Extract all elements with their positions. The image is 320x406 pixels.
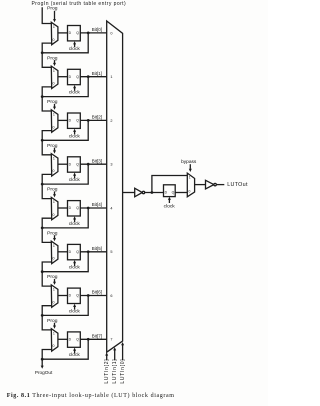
svg-text:Prog: Prog — [47, 318, 58, 324]
wire hold input mux M0 0 — [42, 43, 52, 53]
flip-flop FF6 — [68, 288, 81, 303]
wire FF8 Q to mux U3 input 0 — [175, 192, 187, 194]
wire chain cell 0 to mux M1 input 1 — [42, 53, 51, 68]
flip-flop FF5 — [68, 244, 81, 259]
svg-text:Q: Q — [76, 294, 79, 298]
wire U3 output to inverter U4 — [195, 184, 206, 186]
wire U2 output to FF8 D — [145, 192, 164, 194]
select arrow LUTIn[1] into mux U1 — [113, 347, 116, 360]
svg-text:0: 0 — [53, 344, 55, 348]
svg-text:Prog: Prog — [47, 230, 58, 236]
svg-text:clock: clock — [69, 308, 81, 314]
mux U1 8-to-1 — [107, 21, 123, 352]
svg-text:ProgIn (serial truth table ent: ProgIn (serial truth table entry port) — [32, 1, 127, 7]
wire hold input mux M3 0 — [42, 174, 52, 184]
mux U3 bypass 2-to-1 — [187, 173, 194, 197]
svg-text:Bit[6]: Bit[6] — [92, 290, 102, 295]
wire hold input mux M7 0 — [42, 350, 52, 360]
svg-text:Prog: Prog — [47, 274, 58, 280]
select arrow Prog cell 0 — [53, 11, 56, 22]
node Bit[4] junction — [87, 207, 90, 210]
svg-text:Q: Q — [76, 206, 79, 210]
svg-text:0: 0 — [53, 169, 55, 173]
node Bit[1] junction — [87, 75, 90, 78]
svg-text:4: 4 — [110, 206, 112, 210]
svg-text:0: 0 — [110, 31, 112, 35]
node Bit[7] junction — [87, 338, 90, 341]
mux M4 2-to-1 — [51, 197, 58, 219]
svg-text:clock: clock — [69, 133, 81, 139]
wire feedback FF1 Q — [42, 77, 88, 97]
wire chain cell 1 to mux M2 input 1 — [42, 97, 51, 111]
svg-text:ProgOut: ProgOut — [35, 370, 53, 375]
node chain junction cell 2 — [41, 139, 44, 142]
wire Bit[7] FF7 Q to mux U1 input 7 — [80, 338, 106, 340]
flip-flop FF4 — [68, 201, 81, 216]
wire feedback FF5 Q — [42, 252, 88, 272]
wire hold input mux M6 0 — [42, 306, 52, 316]
node U2 output junction — [151, 191, 154, 194]
svg-text:Bit[7]: Bit[7] — [92, 333, 102, 338]
select arrow Prog cell 2 — [53, 104, 56, 110]
node chain junction cell 6 — [41, 314, 44, 317]
svg-text:1: 1 — [53, 200, 55, 204]
svg-text:3: 3 — [110, 163, 112, 167]
svg-text:0: 0 — [53, 257, 55, 261]
clock input FF1 — [69, 85, 81, 96]
flip-flop FF1 — [68, 69, 81, 84]
svg-text:clock: clock — [69, 221, 81, 227]
wire Bit[3] FF3 Q to mux U1 input 3 — [80, 163, 106, 165]
svg-text:clock: clock — [69, 90, 81, 96]
node Bit[0] junction — [87, 32, 90, 35]
svg-text:1: 1 — [53, 156, 55, 160]
node chain junction cell 5 — [41, 270, 44, 273]
mux M7 2-to-1 — [51, 329, 58, 351]
wire chain cell 6 to mux M7 input 1 — [42, 315, 51, 330]
mux M0 2-to-1 — [51, 22, 58, 44]
wire LUTOut — [216, 184, 224, 186]
node Bit[2] junction — [87, 119, 90, 122]
clock input FF5 — [69, 260, 81, 271]
wire mux M2 to FF2 D — [58, 119, 68, 121]
svg-text:Q: Q — [76, 31, 79, 35]
svg-text:0: 0 — [53, 213, 55, 217]
svg-text:Prog: Prog — [47, 99, 58, 105]
wire feedback FF2 Q — [42, 120, 88, 140]
wire chain cell 4 to mux M5 input 1 — [42, 228, 51, 243]
svg-text:Q: Q — [172, 191, 175, 195]
svg-text:0: 0 — [53, 300, 55, 304]
svg-text:LUTOut: LUTOut — [227, 182, 248, 188]
svg-text:0: 0 — [189, 189, 191, 193]
select arrow Prog cell 3 — [53, 148, 56, 154]
select arrow Prog cell 6 — [53, 279, 56, 285]
svg-text:Bit[0]: Bit[0] — [92, 27, 102, 32]
wire feedback FF7 Q — [42, 339, 88, 359]
select arrow Prog cell 5 — [53, 235, 56, 241]
svg-text:clock: clock — [69, 177, 81, 183]
svg-text:LUTIn[0]: LUTIn[0] — [120, 359, 126, 384]
svg-text:1: 1 — [53, 288, 55, 292]
select arrow LUTIn[0] into mux U1 — [121, 342, 124, 360]
svg-text:Bit[3]: Bit[3] — [92, 158, 102, 163]
wire feedback FF3 Q — [42, 164, 88, 184]
wire chain cell 3 to mux M4 input 1 — [42, 184, 51, 199]
clock input FF7 — [69, 348, 81, 359]
svg-text:Bit[5]: Bit[5] — [92, 246, 102, 251]
node chain junction cell 0 — [41, 51, 44, 54]
mux M6 2-to-1 — [51, 285, 58, 307]
select arrow Prog cell 4 — [53, 191, 56, 197]
flip-flop FF3 — [68, 157, 81, 172]
wire ProgOut — [41, 359, 44, 369]
select arrow LUTIn[2] into mux U1 — [105, 352, 108, 360]
svg-text:Bit[4]: Bit[4] — [92, 202, 102, 207]
svg-text:Bit[1]: Bit[1] — [92, 71, 102, 76]
svg-text:0: 0 — [53, 38, 55, 42]
wire feedback FF4 Q — [42, 208, 88, 228]
clock input FF3 — [69, 173, 81, 184]
wire U1 output — [123, 192, 135, 194]
wire Bit[2] FF2 Q to mux U1 input 2 — [80, 119, 106, 121]
wire mux M6 to FF6 D — [58, 295, 68, 297]
wire mux M3 to FF3 D — [58, 163, 68, 165]
svg-text:LUTIn[2]: LUTIn[2] — [104, 359, 110, 384]
svg-text:2: 2 — [110, 119, 112, 123]
wire mux M0 to FF0 D — [58, 32, 68, 34]
svg-text:1: 1 — [53, 332, 55, 336]
wire bypass path to mux U3 input 1 — [152, 176, 187, 193]
svg-text:Prog: Prog — [47, 143, 58, 149]
wire hold input mux M4 0 — [42, 218, 52, 228]
svg-text:Q: Q — [76, 119, 79, 123]
inverter U2 — [135, 188, 145, 197]
wire ProgIn to mux M0 input 1 — [42, 7, 51, 23]
svg-text:0: 0 — [53, 125, 55, 129]
wire mux M7 to FF7 D — [58, 338, 68, 340]
node Bit[6] junction — [87, 294, 90, 297]
wire Bit[1] FF1 Q to mux U1 input 1 — [80, 76, 106, 78]
svg-text:Q: Q — [76, 75, 79, 79]
svg-text:Prog: Prog — [47, 6, 58, 12]
wire Bit[5] FF5 Q to mux U1 input 5 — [80, 251, 106, 253]
flip-flop FF7 — [68, 332, 81, 347]
node chain junction cell 3 — [41, 183, 44, 186]
svg-text:1: 1 — [53, 244, 55, 248]
svg-text:Fig. 8.1Three-input look-up-ta: Fig. 8.1Three-input look-up-table (LUT) … — [7, 392, 175, 399]
node chain junction cell 1 — [41, 95, 44, 98]
svg-text:bypass: bypass — [181, 159, 197, 165]
svg-text:Q: Q — [76, 250, 79, 254]
clock input FF2 — [69, 129, 81, 140]
node Bit[3] junction — [87, 163, 90, 166]
wire hold input mux M5 0 — [42, 262, 52, 272]
svg-text:clock: clock — [69, 46, 81, 52]
svg-text:1: 1 — [189, 175, 191, 179]
svg-text:6: 6 — [110, 294, 112, 298]
select arrow Prog cell 1 — [53, 60, 56, 66]
wire mux M1 to FF1 D — [58, 76, 68, 78]
clock input FF0 — [69, 41, 81, 52]
flip-flop FF0 — [68, 26, 81, 41]
svg-text:clock: clock — [69, 352, 81, 358]
node Bit[5] junction — [87, 250, 90, 253]
mux M5 2-to-1 — [51, 241, 58, 263]
svg-text:clock: clock — [69, 265, 81, 271]
wire Bit[6] FF6 Q to mux U1 input 6 — [80, 295, 106, 297]
clock input FF4 — [69, 216, 81, 227]
wire Bit[4] FF4 Q to mux U1 input 4 — [80, 207, 106, 209]
select arrow Prog cell 7 — [53, 323, 56, 329]
svg-text:1: 1 — [53, 113, 55, 117]
mux M1 2-to-1 — [51, 66, 58, 88]
node chain junction cell 7 — [41, 358, 44, 361]
svg-text:7: 7 — [110, 338, 112, 342]
wire feedback FF6 Q — [42, 296, 88, 316]
clock input FF8 — [164, 197, 176, 210]
svg-text:5: 5 — [110, 250, 112, 254]
wire chain cell 5 to mux M6 input 1 — [42, 272, 51, 286]
inverter U4 — [206, 180, 217, 189]
svg-text:clock: clock — [164, 204, 176, 210]
svg-text:Q: Q — [76, 162, 79, 166]
node chain junction cell 4 — [41, 227, 44, 230]
mux M2 2-to-1 — [51, 110, 58, 132]
svg-text:LUTIn[1]: LUTIn[1] — [112, 359, 118, 384]
wire Bit[0] FF0 Q to mux U1 input 0 — [80, 32, 106, 34]
svg-text:1: 1 — [53, 25, 55, 29]
select arrow bypass — [189, 164, 192, 172]
wire feedback FF0 Q — [42, 33, 88, 53]
wire mux M4 to FF4 D — [58, 207, 68, 209]
svg-text:Prog: Prog — [47, 55, 58, 61]
mux M3 2-to-1 — [51, 154, 58, 176]
flip-flop FF8 — [164, 185, 176, 197]
svg-text:1: 1 — [110, 75, 112, 79]
wire hold input mux M1 0 — [42, 87, 52, 97]
flip-flop FF2 — [68, 113, 81, 128]
wire hold input mux M2 0 — [42, 131, 52, 141]
svg-text:1: 1 — [53, 69, 55, 73]
clock input FF6 — [69, 304, 81, 315]
wire mux M5 to FF5 D — [58, 251, 68, 253]
svg-text:Prog: Prog — [47, 187, 58, 193]
svg-text:Bit[2]: Bit[2] — [92, 115, 102, 120]
svg-text:0: 0 — [53, 82, 55, 86]
wire chain cell 2 to mux M3 input 1 — [42, 140, 51, 155]
svg-text:Q: Q — [76, 337, 79, 341]
